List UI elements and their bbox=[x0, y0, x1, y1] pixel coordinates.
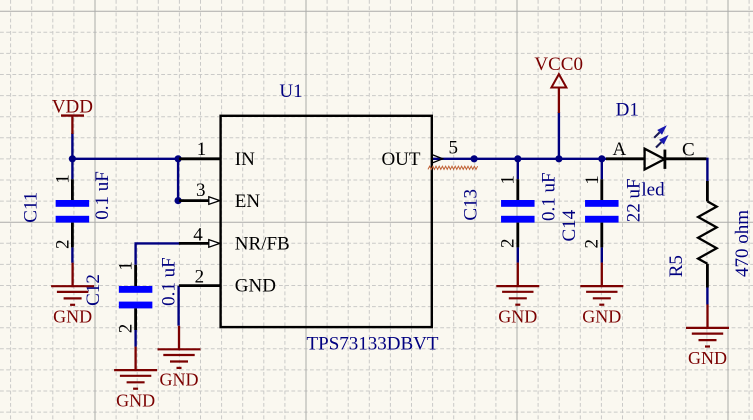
svg-text:2: 2 bbox=[52, 240, 73, 250]
svg-text:4: 4 bbox=[193, 225, 203, 246]
svg-text:GND: GND bbox=[498, 306, 537, 326]
svg-text:C: C bbox=[682, 139, 695, 160]
svg-text:1: 1 bbox=[197, 139, 207, 160]
svg-text:TPS73133DBVT: TPS73133DBVT bbox=[307, 334, 439, 355]
svg-text:OUT: OUT bbox=[381, 149, 420, 170]
svg-text:GND: GND bbox=[116, 390, 155, 410]
svg-text:1: 1 bbox=[116, 261, 137, 271]
svg-text:GND: GND bbox=[235, 276, 276, 297]
svg-text:EN: EN bbox=[235, 191, 261, 212]
svg-text:VCC0: VCC0 bbox=[534, 54, 583, 75]
svg-text:C13: C13 bbox=[461, 189, 482, 221]
svg-text:1: 1 bbox=[52, 174, 73, 184]
svg-text:C14: C14 bbox=[559, 209, 580, 241]
svg-text:1: 1 bbox=[582, 175, 603, 185]
svg-text:VDD: VDD bbox=[52, 96, 93, 117]
svg-text:2: 2 bbox=[497, 239, 518, 249]
svg-text:470 ohm: 470 ohm bbox=[732, 210, 753, 277]
svg-text:NR/FB: NR/FB bbox=[235, 233, 290, 254]
svg-text:led: led bbox=[641, 179, 665, 200]
svg-text:D1: D1 bbox=[616, 99, 639, 120]
svg-text:2: 2 bbox=[195, 267, 205, 288]
svg-text:2: 2 bbox=[582, 239, 603, 249]
svg-text:0.1 uF: 0.1 uF bbox=[158, 257, 179, 306]
svg-text:GND: GND bbox=[53, 307, 92, 327]
svg-text:C11: C11 bbox=[20, 192, 41, 223]
svg-text:R5: R5 bbox=[666, 255, 687, 277]
svg-text:3: 3 bbox=[196, 180, 206, 201]
svg-text:0.1 uF: 0.1 uF bbox=[539, 172, 560, 221]
svg-text:IN: IN bbox=[235, 149, 255, 170]
svg-text:GND: GND bbox=[582, 306, 621, 326]
svg-text:0.1 uF: 0.1 uF bbox=[92, 171, 113, 220]
svg-text:2: 2 bbox=[116, 324, 137, 334]
svg-text:GND: GND bbox=[688, 348, 727, 368]
svg-text:5: 5 bbox=[448, 138, 458, 159]
svg-text:C12: C12 bbox=[83, 274, 104, 306]
svg-text:A: A bbox=[613, 139, 627, 160]
svg-text:GND: GND bbox=[160, 370, 199, 390]
svg-text:U1: U1 bbox=[279, 81, 302, 102]
svg-text:1: 1 bbox=[498, 175, 519, 185]
